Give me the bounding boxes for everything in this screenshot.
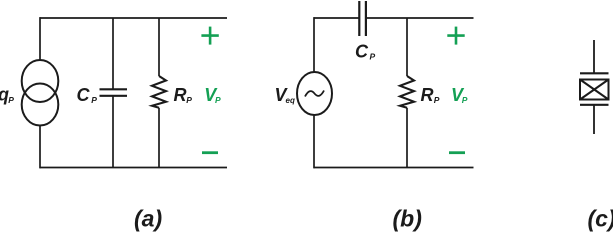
resistor RP in (a): zigzag [152,76,166,108]
wire: top wire right segment of circuit (b) [367,17,474,19]
capacitor CP in (b): two vertical plates in series [359,1,366,36]
wire: capacitor branch lower segment of (a) [112,96,114,168]
wire: resistor branch lower segment of (b) [406,108,408,168]
svg-text:P: P [186,95,192,105]
charge source qP (two overlapping circles) [22,60,59,126]
wire: left branch lower segment of (b) [313,115,315,169]
svg-text:P: P [434,95,440,105]
label RP in (b) [421,85,440,105]
svg-text:P: P [462,95,468,105]
wire: top wire left segment of circuit (b) [314,17,360,19]
wire: bottom wire of circuit (b) [314,167,474,169]
crystal (piezo) element in (c): plates and box with X [580,73,609,105]
svg-text:(c): (c) [588,206,613,232]
svg-text:P: P [215,95,221,105]
wire: bottom wire of circuit (a) [40,167,228,169]
capacitor CP in (a): two horizontal plates [100,89,128,96]
svg-text:P: P [8,95,14,105]
minus terminal of (a) [202,151,218,154]
svg-text:eq: eq [286,96,295,105]
wire: left branch lower segment of (a) [39,125,41,168]
wire: left branch upper segment of (a) [39,17,41,60]
svg-text:R: R [421,85,434,105]
label Veq [275,85,295,105]
resistor RP in (b): zigzag [400,76,414,108]
wire: top wire of circuit (a) [40,17,228,19]
label CP in (b) [355,42,376,62]
svg-text:R: R [174,85,187,105]
label RP in (a) [174,85,193,105]
wire: resistor branch lower segment of (a) [158,108,160,168]
wire: left branch upper segment of (b) [313,17,315,72]
label VP in (b) (green) [451,85,468,105]
label CP in (a) [77,85,98,105]
wire: resistor branch upper segment of (b) [406,18,408,76]
svg-text:C: C [355,42,369,62]
svg-text:P: P [370,52,376,62]
minus terminal of (b) [449,151,465,154]
svg-text:(b): (b) [393,206,422,232]
svg-text:P: P [91,95,97,105]
wire: top lead of crystal (c) [593,40,595,73]
label VP in (a) (green) [204,85,221,105]
voltage source Veq: circle with sine [297,72,332,115]
svg-text:(a): (a) [134,206,162,232]
wire: capacitor branch upper segment of (a) [112,18,114,89]
wire: resistor branch upper segment of (a) [158,18,160,76]
svg-text:C: C [77,85,91,105]
wire: bottom lead of crystal (c) [593,105,595,134]
label qP [0,85,14,105]
plus terminal of (a) [201,27,218,45]
plus terminal of (b) [447,27,464,45]
